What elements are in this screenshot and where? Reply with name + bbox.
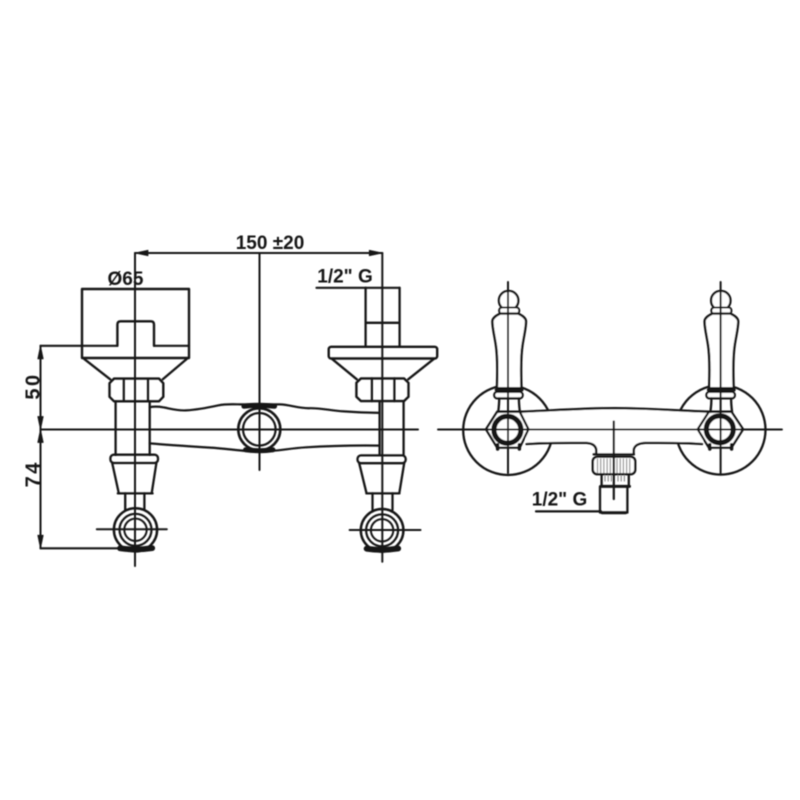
center circle top blob [244,403,275,409]
right collar [358,455,406,463]
body bar top edge line [521,408,709,412]
left handle ball finial [499,291,518,310]
right view body bar [521,408,709,454]
coupling lower edge [601,485,630,488]
right ball joint circles [361,509,404,552]
left collar [110,455,158,463]
svg-text:1/2" G: 1/2" G [532,490,587,511]
right handle base [710,398,732,412]
middle centerline [259,253,261,470]
left hex nut [110,379,164,402]
bottom leader line [536,510,601,512]
wall line [41,345,190,347]
right view centerline [438,429,782,431]
svg-text:1/2" G: 1/2" G [317,267,372,288]
left cone [84,359,187,380]
right hex bottom ticks [710,445,732,449]
right handle base collar [706,392,735,399]
left knob ring [494,416,521,443]
left stem [125,493,144,510]
body bar top edge [150,404,380,413]
right handle base dark band [709,388,734,391]
right view right escutcheon circle [676,385,766,475]
left handle base collar [494,392,523,399]
lower knurl section [602,474,629,486]
tube bottom end [602,511,626,514]
dimension line 150±20 [135,252,382,254]
knurling [598,459,630,473]
left ball bottom thick arc [120,548,152,549]
svg-text:74: 74 [23,460,45,487]
left valve centerline [134,253,136,566]
right lower cone [359,463,404,493]
top leader line and right pipe [317,287,400,289]
svg-text:50: 50 [23,372,45,399]
svg-text:Ø65: Ø65 [108,269,144,290]
right flange plate [329,347,438,359]
right handle centerline [720,282,722,473]
body bar bottom edge [150,443,380,451]
coupling centerline [613,422,615,500]
center outlet circle outer [238,408,280,450]
right knob ring [706,416,733,443]
right pipe lower [380,401,404,455]
center outlet circle inner [243,413,276,446]
pipe stub square [117,321,154,346]
right ball crosshair horizontal [350,529,421,531]
left hex bottom ticks [498,445,520,449]
main horizontal centerline [41,429,419,431]
vertical dimension line 50/74 [40,346,42,549]
left finial collar [499,308,519,314]
coupling top edge [594,453,634,455]
outlet tube [600,486,627,512]
body bar bottom edge right [634,443,702,455]
left handle base [498,398,520,412]
center circle bottom blob [246,447,274,453]
right cone [332,359,434,380]
body bar bottom edge left [527,443,597,455]
knurled coupling nut [593,457,635,474]
left handle base dark band [496,388,521,391]
left pipe [116,401,150,455]
right knob hexagon [698,412,743,448]
left escutcheon box [82,289,189,358]
right stem [373,493,393,510]
right handle ball finial [711,291,730,310]
left lower cone [112,463,156,493]
right inlet pipe [366,288,400,347]
right valve centerline [381,253,383,562]
bottom extension line [41,547,123,549]
right hex nut [356,378,408,401]
right view left escutcheon circle [463,385,553,475]
right handle body [705,314,739,389]
right finial collar [711,308,731,314]
svg-text:150 ±20: 150 ±20 [236,233,305,254]
left handle body [492,314,526,389]
right ball bottom thick arc [367,549,399,550]
left ball joint circles [114,508,157,551]
left handle centerline [507,282,509,473]
left knob hexagon [486,412,529,448]
left ball crosshair horizontal [97,528,167,530]
